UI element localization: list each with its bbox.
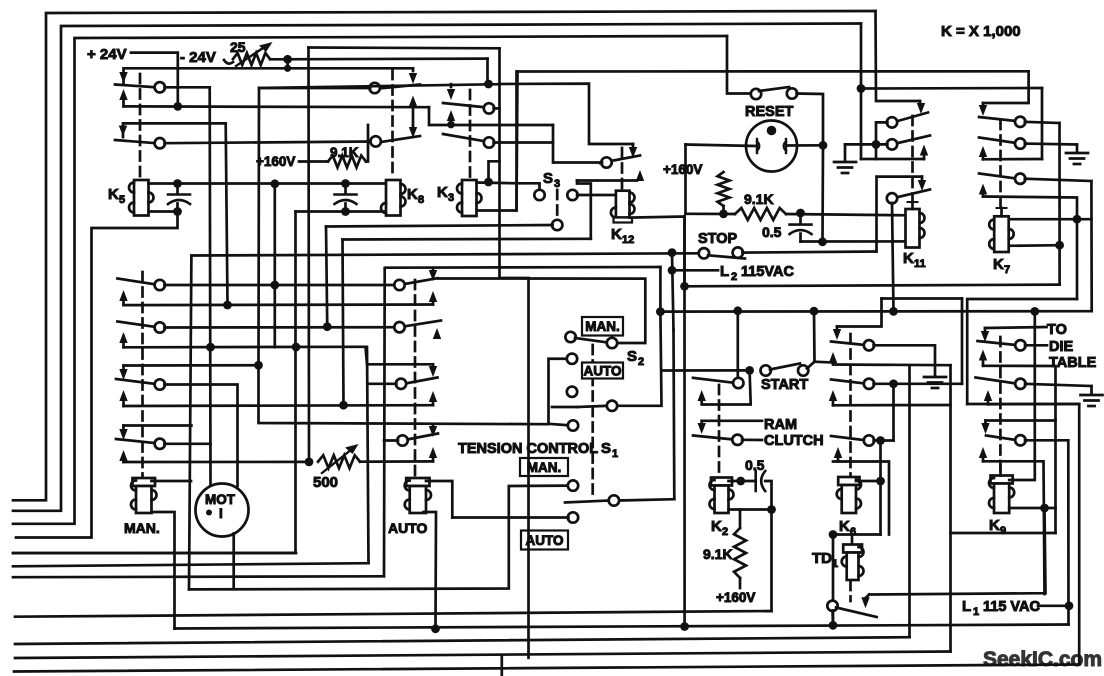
- svg-text:+160V: +160V: [663, 162, 702, 177]
- contact circle row2: [155, 138, 165, 148]
- svg-text:START: START: [761, 377, 808, 393]
- capacitor C-K5 lower stub: [176, 204, 179, 212]
- wire K9 coil top: [1009, 311, 1035, 480]
- node K7 coil junction: [1055, 241, 1064, 250]
- contact circle K12 switch: [601, 157, 611, 167]
- svg-text:DIE: DIE: [1049, 339, 1074, 355]
- contact circle K7 row3: [1015, 174, 1025, 184]
- arrow K6 row3 lower: [834, 447, 842, 462]
- contact circle RAM CLUTCH: [732, 435, 742, 445]
- wire bus616: [15, 611, 772, 617]
- wire y84: [259, 84, 499, 88]
- wire K7 gnd stub: [1076, 145, 1079, 153]
- switch blade MAN row1: [117, 279, 156, 285]
- wire 9.1K K2 bottom stub: [739, 578, 742, 588]
- svg-text:115VAC: 115VAC: [741, 264, 794, 280]
- contact circle MAN row3: [155, 379, 165, 389]
- arrow K3 row1 feed: [447, 84, 455, 100]
- wire start out2: [815, 360, 834, 363]
- wire K11 row3 common: [892, 203, 894, 312]
- wire S2 r4 in: [552, 406, 578, 409]
- wire S3 upper left: [517, 183, 540, 190]
- wire bus239: [343, 237, 591, 240]
- wire K2 cap out: [765, 481, 771, 510]
- switch blade K7 row1: [979, 117, 1016, 121]
- wire reset sw out: [797, 94, 823, 141]
- label STOP: [698, 231, 738, 247]
- dashed actuator K6: [849, 334, 852, 476]
- label MOT: [205, 492, 236, 507]
- wire AUTO row4 common: [384, 439, 398, 442]
- wire row1 feed: [124, 68, 414, 83]
- contact circle S1 r2: [568, 480, 578, 490]
- wire K3 coil bottom: [477, 72, 518, 211]
- dashed actuator TD1: [849, 581, 852, 601]
- arrow TD1 feed: [861, 595, 869, 609]
- contact circle S1 r3: [568, 512, 578, 522]
- arrow K12 switch feed: [629, 144, 637, 158]
- svg-text:9.1K: 9.1K: [703, 546, 733, 562]
- wire K11 dot drop: [875, 144, 878, 159]
- relay coil K8: [381, 180, 406, 216]
- node feed bus junction: [284, 65, 291, 72]
- switch blade K8 row1: [378, 85, 420, 89]
- wire stop jog up: [875, 241, 878, 251]
- box MAN.: [520, 458, 568, 476]
- svg-text:MAN.: MAN.: [585, 319, 620, 334]
- node K2 bottom junction: [767, 505, 776, 514]
- wire MAN coil top right: [152, 480, 192, 483]
- wire stub to row feed bus: [286, 59, 289, 68]
- wire K11 row2 lower: [861, 158, 924, 161]
- svg-text:2: 2: [638, 356, 644, 368]
- arrow K8 row2 feed: [409, 125, 417, 138]
- wire stop drop2: [672, 330, 675, 499]
- switch blade K7 row2: [979, 138, 1016, 144]
- contact circle S3 right: [567, 190, 577, 200]
- wire rail 308: [307, 48, 310, 462]
- contact circle K2 upper: [733, 378, 743, 388]
- wire start momentary loop: [702, 370, 751, 404]
- contact circle AUTO row2: [394, 322, 404, 332]
- wire K5 top: [149, 182, 387, 185]
- dashed actuator K5: [139, 74, 142, 178]
- switch blade STOP: [708, 255, 745, 258]
- contact circle K3 row2: [484, 137, 494, 147]
- dashed actuator K3: [469, 90, 472, 178]
- dashed actuator K7: [999, 120, 1002, 207]
- relay coil K2: [710, 478, 734, 514]
- wire stop out: [742, 252, 876, 253]
- switch blade K8 row2: [378, 136, 420, 143]
- node K5 top junction: [173, 179, 182, 188]
- svg-text:3: 3: [448, 192, 454, 204]
- svg-text:K: K: [839, 518, 850, 535]
- wire k6 row1 lower: [833, 363, 951, 366]
- wire MOT wire y589: [189, 486, 568, 590]
- wire AUTO coil bottom: [424, 512, 437, 629]
- switch blade AUTO row4: [402, 434, 438, 441]
- arrow MAN row3 lower: [119, 390, 127, 406]
- wire rail 950: [949, 365, 952, 651]
- wire bus566: [13, 563, 369, 566]
- label RAM: [764, 417, 797, 433]
- contact circle S1 r1: [568, 420, 578, 430]
- wire TD1 top stub: [851, 535, 854, 545]
- label 25: [230, 39, 246, 55]
- arrow K9 row1 lower: [979, 350, 987, 366]
- contact circle K8 row1: [370, 83, 380, 93]
- relay coil K6: [837, 477, 861, 513]
- capacitor 0.5 stub: [799, 213, 802, 223]
- label K11: [903, 250, 926, 270]
- node K7 top junction: [1073, 215, 1082, 224]
- relay coil K3: [457, 180, 482, 216]
- wire rail 275: [273, 184, 276, 347]
- wire S3 riser: [577, 181, 591, 239]
- node K6 coil junction: [876, 477, 885, 486]
- wire rail 908: [908, 366, 911, 637]
- pushbutton RESET dot: [767, 126, 777, 136]
- wire reset drop: [684, 145, 687, 214]
- wire TD1 rail: [832, 535, 835, 626]
- wire K8 bottom: [296, 210, 387, 213]
- wire start link: [662, 369, 750, 372]
- ground K9: [1081, 395, 1103, 406]
- switch blade RAM CLUTCH: [693, 436, 734, 440]
- label DIE: [1049, 339, 1074, 355]
- contact circle START left: [761, 365, 771, 375]
- label 0.5 mid: [762, 224, 782, 240]
- capacitor 0.5 K2: [756, 471, 766, 491]
- resistor 9.1K K2: [734, 528, 746, 578]
- node MAN row4 lower junction: [305, 458, 314, 467]
- svg-text:2: 2: [731, 271, 737, 283]
- contact circle K11 row1: [887, 117, 897, 127]
- wire MOT lead right bottom: [232, 534, 235, 590]
- wire y278 jog: [500, 278, 529, 658]
- label TD1: [812, 550, 838, 570]
- dashed actuator K12 switch: [621, 148, 624, 188]
- wire K6 r2 riser: [961, 299, 964, 384]
- svg-text:1: 1: [973, 606, 979, 618]
- node bus629 junction k12: [680, 622, 689, 631]
- contact circle MAN row4: [155, 439, 165, 449]
- wire bus1 top/left: [13, 11, 876, 500]
- label S3: [543, 170, 560, 190]
- relay coil K11: [906, 209, 925, 248]
- svg-text:+160V: +160V: [716, 590, 755, 605]
- ground K7: [1066, 153, 1088, 164]
- node -24V junction: [173, 102, 182, 111]
- wire rail 368: [367, 347, 369, 563]
- label AUTO coil: [388, 520, 428, 536]
- svg-text:TO: TO: [1047, 322, 1067, 338]
- node K6 row3 junction: [876, 436, 885, 445]
- switch blade row2: [115, 140, 156, 143]
- wire bus644: [15, 637, 910, 644]
- wire rail 384: [383, 268, 386, 576]
- relay coil MAN: [131, 478, 157, 513]
- arrow MAN row1 lower: [119, 290, 127, 305]
- svg-text:K = X 1,000: K = X 1,000: [941, 23, 1021, 40]
- dashed actuator AUTO relay: [414, 280, 417, 477]
- contact circle S3 left: [534, 190, 544, 200]
- wire K6 lower link: [833, 533, 881, 536]
- wire row1 common: [165, 86, 210, 89]
- wire MAN row2 common: [164, 326, 395, 329]
- svg-text:RAM: RAM: [764, 417, 797, 433]
- wire rail 436k: [515, 72, 518, 211]
- svg-text:S: S: [627, 348, 637, 365]
- node L1 junction: [1065, 601, 1074, 610]
- svg-text:I: I: [219, 506, 223, 521]
- svg-text:115 VAC: 115 VAC: [983, 599, 1040, 615]
- svg-text:K: K: [711, 518, 722, 535]
- arrow start momentary: [698, 390, 706, 401]
- node start bus junction: [733, 306, 742, 315]
- arrow AUTO row3 feed: [429, 364, 437, 377]
- switch blade S1 mid: [565, 501, 609, 503]
- contact circle K11 row2: [887, 139, 897, 149]
- node K3 coil top junction: [484, 178, 493, 187]
- relay coil K12: [611, 191, 635, 223]
- capacitor C-K5 stub: [176, 184, 179, 194]
- wire K6 row3 common: [874, 439, 894, 442]
- wire K7 row1 common: [1025, 122, 1060, 123]
- svg-text:AUTO: AUTO: [388, 520, 428, 536]
- svg-text:5: 5: [119, 194, 125, 206]
- node AUTO bus junction: [431, 624, 440, 633]
- svg-text:L: L: [720, 263, 729, 280]
- label K7: [993, 256, 1010, 276]
- wire bus658: [15, 652, 951, 659]
- capacitor C-K8 stub: [344, 184, 347, 194]
- label START: [761, 377, 808, 393]
- node reset right junction: [819, 141, 828, 150]
- wire MAN row1 common: [164, 284, 395, 287]
- contact circle AUTO row1: [394, 280, 404, 290]
- switch blade K11 row3: [896, 190, 930, 198]
- wire MAN row3 lower: [124, 404, 434, 407]
- node rail 326 end: [323, 322, 332, 331]
- svg-text:MOT: MOT: [205, 492, 236, 507]
- wire K9 row3 feed: [986, 419, 1056, 422]
- wire TD1 feed: [869, 508, 1045, 595]
- svg-text:AUTO: AUTO: [583, 363, 621, 378]
- contact circle AUTO row4: [397, 435, 407, 445]
- wire bus285: [685, 285, 1060, 287]
- wire K9 row1 feed: [985, 327, 1047, 328]
- label K9: [989, 517, 1006, 537]
- wire bus671: [14, 665, 1079, 672]
- pushbutton RESET left pin: [757, 139, 759, 153]
- label +160V K2: [716, 590, 755, 605]
- svg-text:K: K: [108, 186, 119, 203]
- svg-text:MAN.: MAN.: [527, 460, 562, 475]
- wire reset to cap bus: [821, 145, 824, 242]
- label TO: [1047, 322, 1067, 338]
- svg-text:11: 11: [914, 258, 926, 270]
- switch blade K9 row1: [978, 341, 1017, 345]
- switch blade K6 row2: [831, 380, 865, 384]
- node MAN row3 lower junction: [339, 401, 348, 410]
- arrow row2 feed: [119, 126, 127, 137]
- svg-text:9.1K: 9.1K: [744, 191, 774, 207]
- wire resistor stub: [722, 206, 725, 214]
- label L2 115VAC: [720, 263, 794, 283]
- contact circle S2 r2 left: [567, 354, 577, 364]
- arrow K8 row1 feed: [409, 68, 417, 84]
- svg-text:AUTO: AUTO: [525, 533, 563, 548]
- node 9.1K junction: [719, 210, 728, 219]
- wire reset left terminal: [686, 145, 756, 147]
- wire K9 row3 common: [1025, 440, 1069, 624]
- rheostat 25 zigzag: [233, 53, 270, 65]
- wire reset switch feed: [727, 36, 751, 94]
- arrow K12 arm: [636, 170, 644, 181]
- label K2: [711, 518, 728, 538]
- arrow K9 row2 lower: [984, 390, 992, 404]
- switch blade K7 row3: [979, 174, 1016, 179]
- wire K7 row2 lower: [983, 158, 1042, 161]
- resistor 500: [318, 455, 360, 468]
- wire K7 coil bottom: [1009, 244, 1060, 247]
- label 500: [313, 474, 338, 491]
- node TD1 bus junction: [829, 621, 838, 630]
- contact circle S2 r4 right: [607, 401, 617, 411]
- wire bus226: [326, 225, 553, 227]
- dashed actuator MAN relay: [141, 272, 144, 476]
- capacitor C-K5: [168, 195, 190, 205]
- dashed actuator S2/S1: [591, 345, 594, 498]
- capacitor 0.5: [790, 225, 812, 235]
- contact circle S2 r1 left: [565, 332, 575, 342]
- wire bus26 drop: [860, 24, 863, 160]
- wire K12 switch common: [553, 125, 602, 163]
- svg-text:8: 8: [418, 194, 424, 206]
- node K11 ground junction: [872, 140, 881, 149]
- node MAN row2 junction a: [206, 343, 215, 352]
- svg-text:K: K: [611, 226, 622, 243]
- svg-text:9: 9: [1000, 525, 1006, 537]
- wire bus311: [660, 310, 1091, 313]
- wire rail 191: [189, 256, 191, 590]
- switch blade K9 row2: [976, 378, 1017, 384]
- plunger K11: [908, 202, 918, 209]
- arrow K3 row2 up: [447, 110, 455, 125]
- dashed actuator K11: [911, 116, 914, 207]
- arrow MAN row3 feed: [119, 366, 127, 381]
- wire K2 drop: [770, 510, 773, 612]
- wire K5 branch left loop: [16, 212, 178, 538]
- wire K11 row1 common: [876, 122, 887, 144]
- wire K6 row3 lower: [833, 462, 889, 535]
- contact circle K6 row2: [864, 379, 874, 389]
- wire S3 to K12: [577, 194, 616, 197]
- wire bus629: [175, 625, 1069, 629]
- contact circle K7 row2: [1015, 138, 1025, 148]
- arrow K9 row1 feed: [981, 328, 989, 342]
- svg-text:500: 500: [313, 474, 338, 491]
- wire K3 coil top: [477, 181, 517, 185]
- ground K11: [834, 162, 856, 173]
- wire K9 row2 lower: [988, 403, 1079, 406]
- node start out junction: [810, 307, 819, 316]
- svg-text:+160V: +160V: [256, 154, 295, 169]
- switch blade MAN row3: [116, 379, 156, 384]
- dashed actuator K9: [999, 337, 1002, 474]
- svg-text:0.5: 0.5: [745, 457, 765, 473]
- plunger K7: [997, 208, 1007, 216]
- arrow K9 row3 feed: [981, 421, 989, 435]
- svg-text:1: 1: [612, 448, 618, 460]
- contact circle START right: [798, 365, 808, 375]
- arrow K6 row1 feed: [833, 327, 841, 341]
- wire K6 r3 drop: [879, 441, 882, 535]
- wire K9 jog: [951, 532, 1056, 535]
- wire K9 row3 lower: [983, 461, 1045, 594]
- wire start out: [813, 311, 816, 362]
- label L1 115 VAC: [962, 598, 1040, 618]
- arrow AUTO row4 feed: [429, 424, 437, 437]
- switch blade row1: [115, 85, 156, 88]
- relay coil K5: [129, 180, 154, 216]
- wire MAN row4 feed: [124, 424, 192, 427]
- wire 160V node: [686, 212, 736, 215]
- label K8: [407, 186, 424, 206]
- wire +24V feed: [131, 53, 178, 107]
- arrow K7 row2 lower: [979, 146, 987, 159]
- wire start riser: [736, 311, 739, 379]
- wire AUTO coil right: [426, 481, 452, 518]
- relay coil TD1: [842, 545, 864, 581]
- arrow K9 row3 lower: [979, 447, 987, 461]
- wire K5 bottom: [149, 210, 178, 213]
- label TABLE: [1049, 355, 1097, 371]
- arrow AUTO row4 lower: [429, 447, 437, 461]
- label K3: [437, 184, 454, 204]
- wire y298 right: [967, 299, 1077, 404]
- wire bus577: [13, 575, 384, 579]
- capacitor C-K8: [335, 195, 357, 205]
- contact circle reset sw right: [787, 88, 797, 98]
- wire MAN coil bottom: [152, 512, 175, 629]
- rheostat 500 arrow: [322, 444, 359, 473]
- label S2: [627, 348, 644, 368]
- node rail275 junction: [270, 179, 279, 188]
- wire MAN row4 common: [164, 442, 210, 445]
- arrow MAN row2 lower: [119, 332, 127, 347]
- node MAN row2 junction b: [292, 343, 301, 352]
- wire y84 right tail: [500, 84, 634, 144]
- motor MOT1 body: [196, 484, 249, 537]
- motor dot: [206, 510, 212, 516]
- node K11 bus311 junction: [889, 307, 898, 316]
- contact circle K3 row1: [484, 103, 494, 113]
- svg-text:K: K: [989, 517, 1000, 534]
- svg-text:STOP: STOP: [698, 231, 738, 247]
- label CLUTCH: [764, 433, 824, 449]
- arrow AUTO row1 feed: [429, 268, 437, 281]
- wire K12 bottom: [630, 217, 685, 287]
- node rail275 row1 junction: [270, 281, 279, 290]
- svg-text:- 24V: - 24V: [180, 49, 216, 66]
- node TD1 junction left: [829, 530, 838, 539]
- wire MAN row3 feed: [124, 364, 259, 367]
- wire resistor to jog: [366, 125, 368, 162]
- svg-text:2: 2: [722, 526, 728, 538]
